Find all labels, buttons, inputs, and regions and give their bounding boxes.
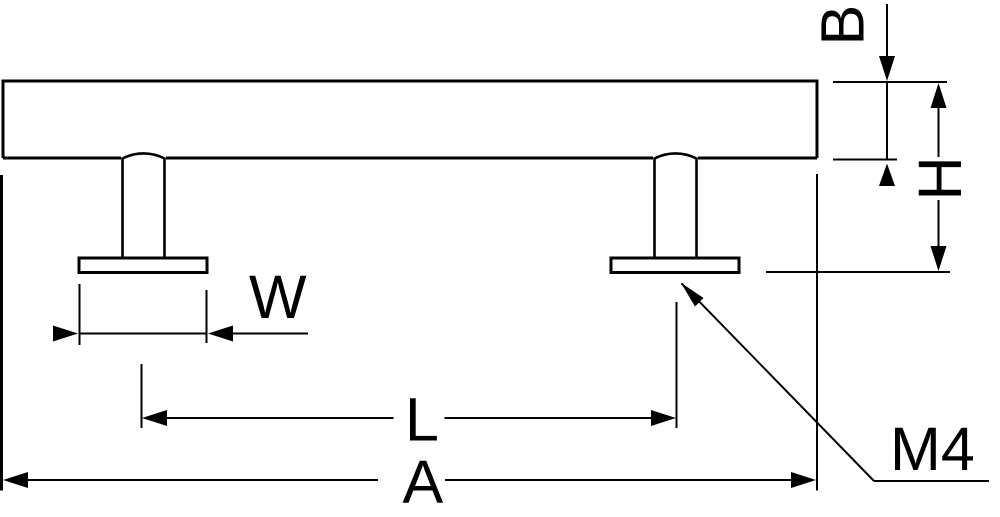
dimension W line (80, 333, 207, 335)
leader M4 horizontal line (874, 480, 989, 482)
svg-text:A: A (403, 448, 444, 516)
dimension L arrow left (142, 410, 167, 426)
extension line W left (79, 284, 81, 345)
dimension L line right (445, 417, 654, 419)
extension line top of bar (for B and H) (833, 81, 947, 83)
extension line A right (816, 174, 818, 491)
dimension A line right (445, 479, 794, 481)
dimension H arrow down (931, 246, 947, 271)
left post flange (79, 258, 207, 273)
extension line W right (206, 290, 208, 343)
left post stem (123, 153, 165, 258)
leader M4 arrowhead (681, 283, 704, 307)
svg-text:B: B (809, 5, 877, 46)
dimension A line left (26, 479, 378, 481)
dimension B arrow down (879, 56, 895, 81)
dimension B line upper (886, 4, 888, 78)
dimension A arrow right (791, 472, 816, 488)
dimension H arrow up (931, 83, 947, 108)
handle bar body (3, 81, 817, 158)
extension line L left (141, 364, 143, 428)
dimension H line lower (938, 200, 940, 248)
extension line A left (0, 175, 3, 491)
dimension H line upper (938, 106, 940, 157)
right post flange (611, 258, 739, 273)
svg-text:L: L (405, 386, 439, 454)
dimension A arrow left (3, 472, 28, 488)
leader M4 diagonal line (682, 283, 875, 481)
dimension W arrow right outside (208, 326, 233, 342)
svg-text:W: W (249, 263, 307, 331)
dimension B arrow up (879, 164, 895, 187)
svg-text:H: H (906, 156, 974, 200)
right post stem (655, 153, 697, 258)
dimension W arrow left outside (53, 326, 78, 342)
dimension L line left (165, 417, 394, 419)
dimension W tail right (231, 333, 308, 335)
dimension L arrow right (651, 410, 676, 426)
extension line bottom of bar (for B) (833, 159, 897, 161)
dimension B line middle (886, 82, 888, 159)
extension line bottom of feet (for H) (766, 271, 950, 273)
extension line L right (676, 302, 678, 428)
svg-text:M4: M4 (890, 415, 975, 483)
